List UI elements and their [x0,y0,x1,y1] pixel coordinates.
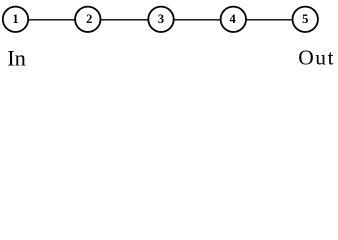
svg-text:5: 5 [302,12,308,26]
svg-text:In: In [7,46,26,71]
svg-text:3: 3 [158,12,164,26]
svg-text:4: 4 [229,12,236,26]
svg-text:Out: Out [298,46,333,70]
svg-text:1: 1 [12,12,18,26]
svg-text:2: 2 [86,12,92,26]
